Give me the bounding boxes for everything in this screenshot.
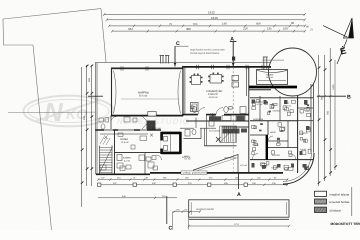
bottom dim chain under building	[98, 179, 288, 181]
right wing fixtures	[252, 100, 312, 171]
legend box 2	[315, 199, 327, 204]
right dim lines	[319, 48, 352, 216]
svg-text:GARD.: GARD.	[253, 144, 260, 147]
watermark logo oval	[24, 96, 114, 127]
dining area walls	[182, 67, 249, 173]
north arrow fill	[348, 18, 353, 38]
room text freckles	[184, 101, 307, 170]
svg-text:N: N	[44, 97, 64, 127]
svg-text:371: 371	[193, 22, 198, 26]
second bottom line	[98, 197, 177, 199]
living room center line	[121, 98, 178, 100]
roof overhang line	[95, 62, 270, 64]
small dim row	[173, 211, 201, 213]
svg-text:365: 365	[321, 95, 324, 100]
svg-text:SZOBA: SZOBA	[120, 138, 129, 141]
svg-text:1240: 1240	[332, 84, 335, 90]
bottom post row	[98, 184, 288, 186]
dining table 1	[192, 76, 201, 85]
corridor walls and clutter	[180, 115, 249, 146]
svg-text:tervezett bontás: tervezett bontás	[330, 200, 351, 204]
svg-text:C: C	[169, 226, 173, 231]
building top wall	[111, 67, 183, 69]
left wing window gaps	[104, 129, 113, 131]
svg-text:új falazat: új falazat	[330, 208, 341, 212]
svg-text:ÉTKEZŐ: ÉTKEZŐ	[208, 92, 218, 96]
svg-text:1,9 m2: 1,9 m2	[285, 105, 292, 108]
svg-text:1712: 1712	[234, 223, 240, 226]
top dimension row 2	[106, 18, 307, 21]
stairs left	[99, 146, 112, 175]
svg-text:16,1 m2: 16,1 m2	[266, 76, 274, 79]
svg-text:140: 140	[222, 22, 227, 26]
svg-text:1912: 1912	[208, 10, 215, 14]
svg-text:KAMRA: KAMRA	[273, 110, 281, 113]
svg-text:SZOBA: SZOBA	[266, 73, 274, 76]
site boundary left edge	[3, 19, 33, 45]
west outer edge	[94, 63, 96, 175]
legend box 3	[315, 207, 327, 212]
under-kitchen hall marks	[100, 157, 158, 171]
top dimension row 4	[111, 30, 306, 33]
kitchen clutter	[223, 116, 248, 134]
corridor walls center	[186, 120, 249, 122]
building bottom wall	[96, 173, 150, 175]
terrace dim	[189, 225, 289, 227]
kitchen counters dark	[209, 116, 221, 121]
terrace	[189, 200, 289, 217]
door pivot marker	[210, 113, 216, 119]
svg-text:FÜRDŐ: FÜRDŐ	[300, 132, 308, 135]
living room bottom wall	[111, 115, 183, 117]
svg-text:NAPPALI: NAPPALI	[138, 91, 149, 94]
north arrow	[323, 18, 354, 64]
left wing	[95, 116, 161, 175]
center stairs	[220, 126, 237, 142]
bottom-right quarter arc terrace	[283, 153, 314, 184]
fireplace	[147, 121, 156, 130]
svg-text:MÓDOSÍTOTT TERV: MÓDOSÍTOTT TERV	[331, 222, 360, 226]
kitchen new-wall U block	[162, 132, 181, 154]
section C bottom	[166, 196, 168, 224]
ramp triangle	[194, 155, 239, 173]
small fixtures left wing	[117, 155, 122, 161]
svg-text:A: A	[237, 192, 241, 198]
svg-text:160: 160	[283, 26, 288, 30]
svg-text:12,5 m2: 12,5 m2	[121, 141, 129, 144]
svg-text:ELŐSZOBA: ELŐSZOBA	[209, 130, 220, 133]
svg-text:75: 75	[169, 22, 173, 26]
big circle room top-right	[269, 48, 317, 96]
svg-text:9,2 m2: 9,2 m2	[257, 103, 264, 106]
circle room inner	[257, 70, 288, 85]
fence line left	[8, 111, 95, 114]
svg-text:1640: 1640	[211, 16, 218, 20]
new wall thick band right wing	[249, 86, 297, 89]
living room bay arcs	[114, 71, 117, 114]
svg-text:meglévő falazat: meglévő falazat	[330, 192, 350, 196]
west corridor fixtures	[99, 117, 137, 129]
svg-text:334: 334	[128, 27, 133, 31]
svg-text:4,2 m2: 4,2 m2	[124, 159, 131, 162]
right wing walls	[250, 84, 313, 173]
new wall thick vertical	[266, 135, 268, 160]
gardrob label box	[181, 171, 207, 175]
svg-text:TEREM: TEREM	[271, 167, 278, 170]
svg-text:ELŐTÉR: ELŐTÉR	[272, 154, 281, 157]
svg-text:41,02 m2: 41,02 m2	[209, 96, 219, 99]
site boundary right edge	[101, 9, 106, 62]
legend box 1	[315, 191, 327, 196]
svg-text:2,4 m2: 2,4 m2	[300, 148, 307, 151]
dining table 2	[210, 75, 222, 84]
svg-text:B: B	[347, 95, 351, 101]
svg-text:37,5 m2: 37,5 m2	[139, 95, 148, 98]
svg-text:325: 325	[88, 77, 91, 82]
door arcs	[198, 108, 223, 115]
svg-text:245: 245	[83, 115, 86, 120]
armchairs right	[232, 76, 239, 81]
chimney near circle	[263, 57, 268, 70]
chimney marks top	[160, 56, 170, 64]
svg-text:szerint lepcso folott tolalva: szerint lepcso folott tolalva	[190, 52, 220, 55]
stairs landing hatch	[100, 137, 110, 145]
living room	[112, 69, 184, 116]
site boundary slanted edge	[33, 45, 52, 230]
svg-text:135: 135	[267, 26, 272, 30]
svg-text:456: 456	[256, 21, 261, 25]
section A dashed through building	[232, 67, 234, 114]
top dimension row 3	[108, 25, 306, 28]
sofa bottom left	[191, 103, 199, 112]
svg-text:11,9 m2: 11,9 m2	[240, 164, 248, 167]
svg-text:HÁLÓ: HÁLÓ	[270, 131, 276, 134]
section B line	[317, 95, 346, 97]
door gaps bottom dining	[198, 113, 206, 116]
svg-text:ELŐTÉR: ELŐTÉR	[182, 156, 191, 159]
site boundary top edge	[3, 9, 101, 19]
svg-text:388: 388	[186, 27, 191, 31]
section A bottom	[238, 173, 240, 189]
svg-text:GARDRÓB: GARDRÓB	[253, 118, 264, 121]
svg-text:760: 760	[327, 110, 330, 115]
svg-text:szélfogó, gardrobszekrény: szélfogó, gardrobszekrény	[183, 172, 210, 175]
left dim lines	[82, 65, 92, 207]
svg-text:216: 216	[243, 26, 248, 30]
top dimension row 1	[103, 13, 306, 16]
svg-text:90: 90	[291, 21, 295, 25]
svg-text:KAMRA: KAMRA	[123, 157, 131, 160]
svg-text:meglévő támfal: meglévő támfal	[196, 208, 214, 211]
